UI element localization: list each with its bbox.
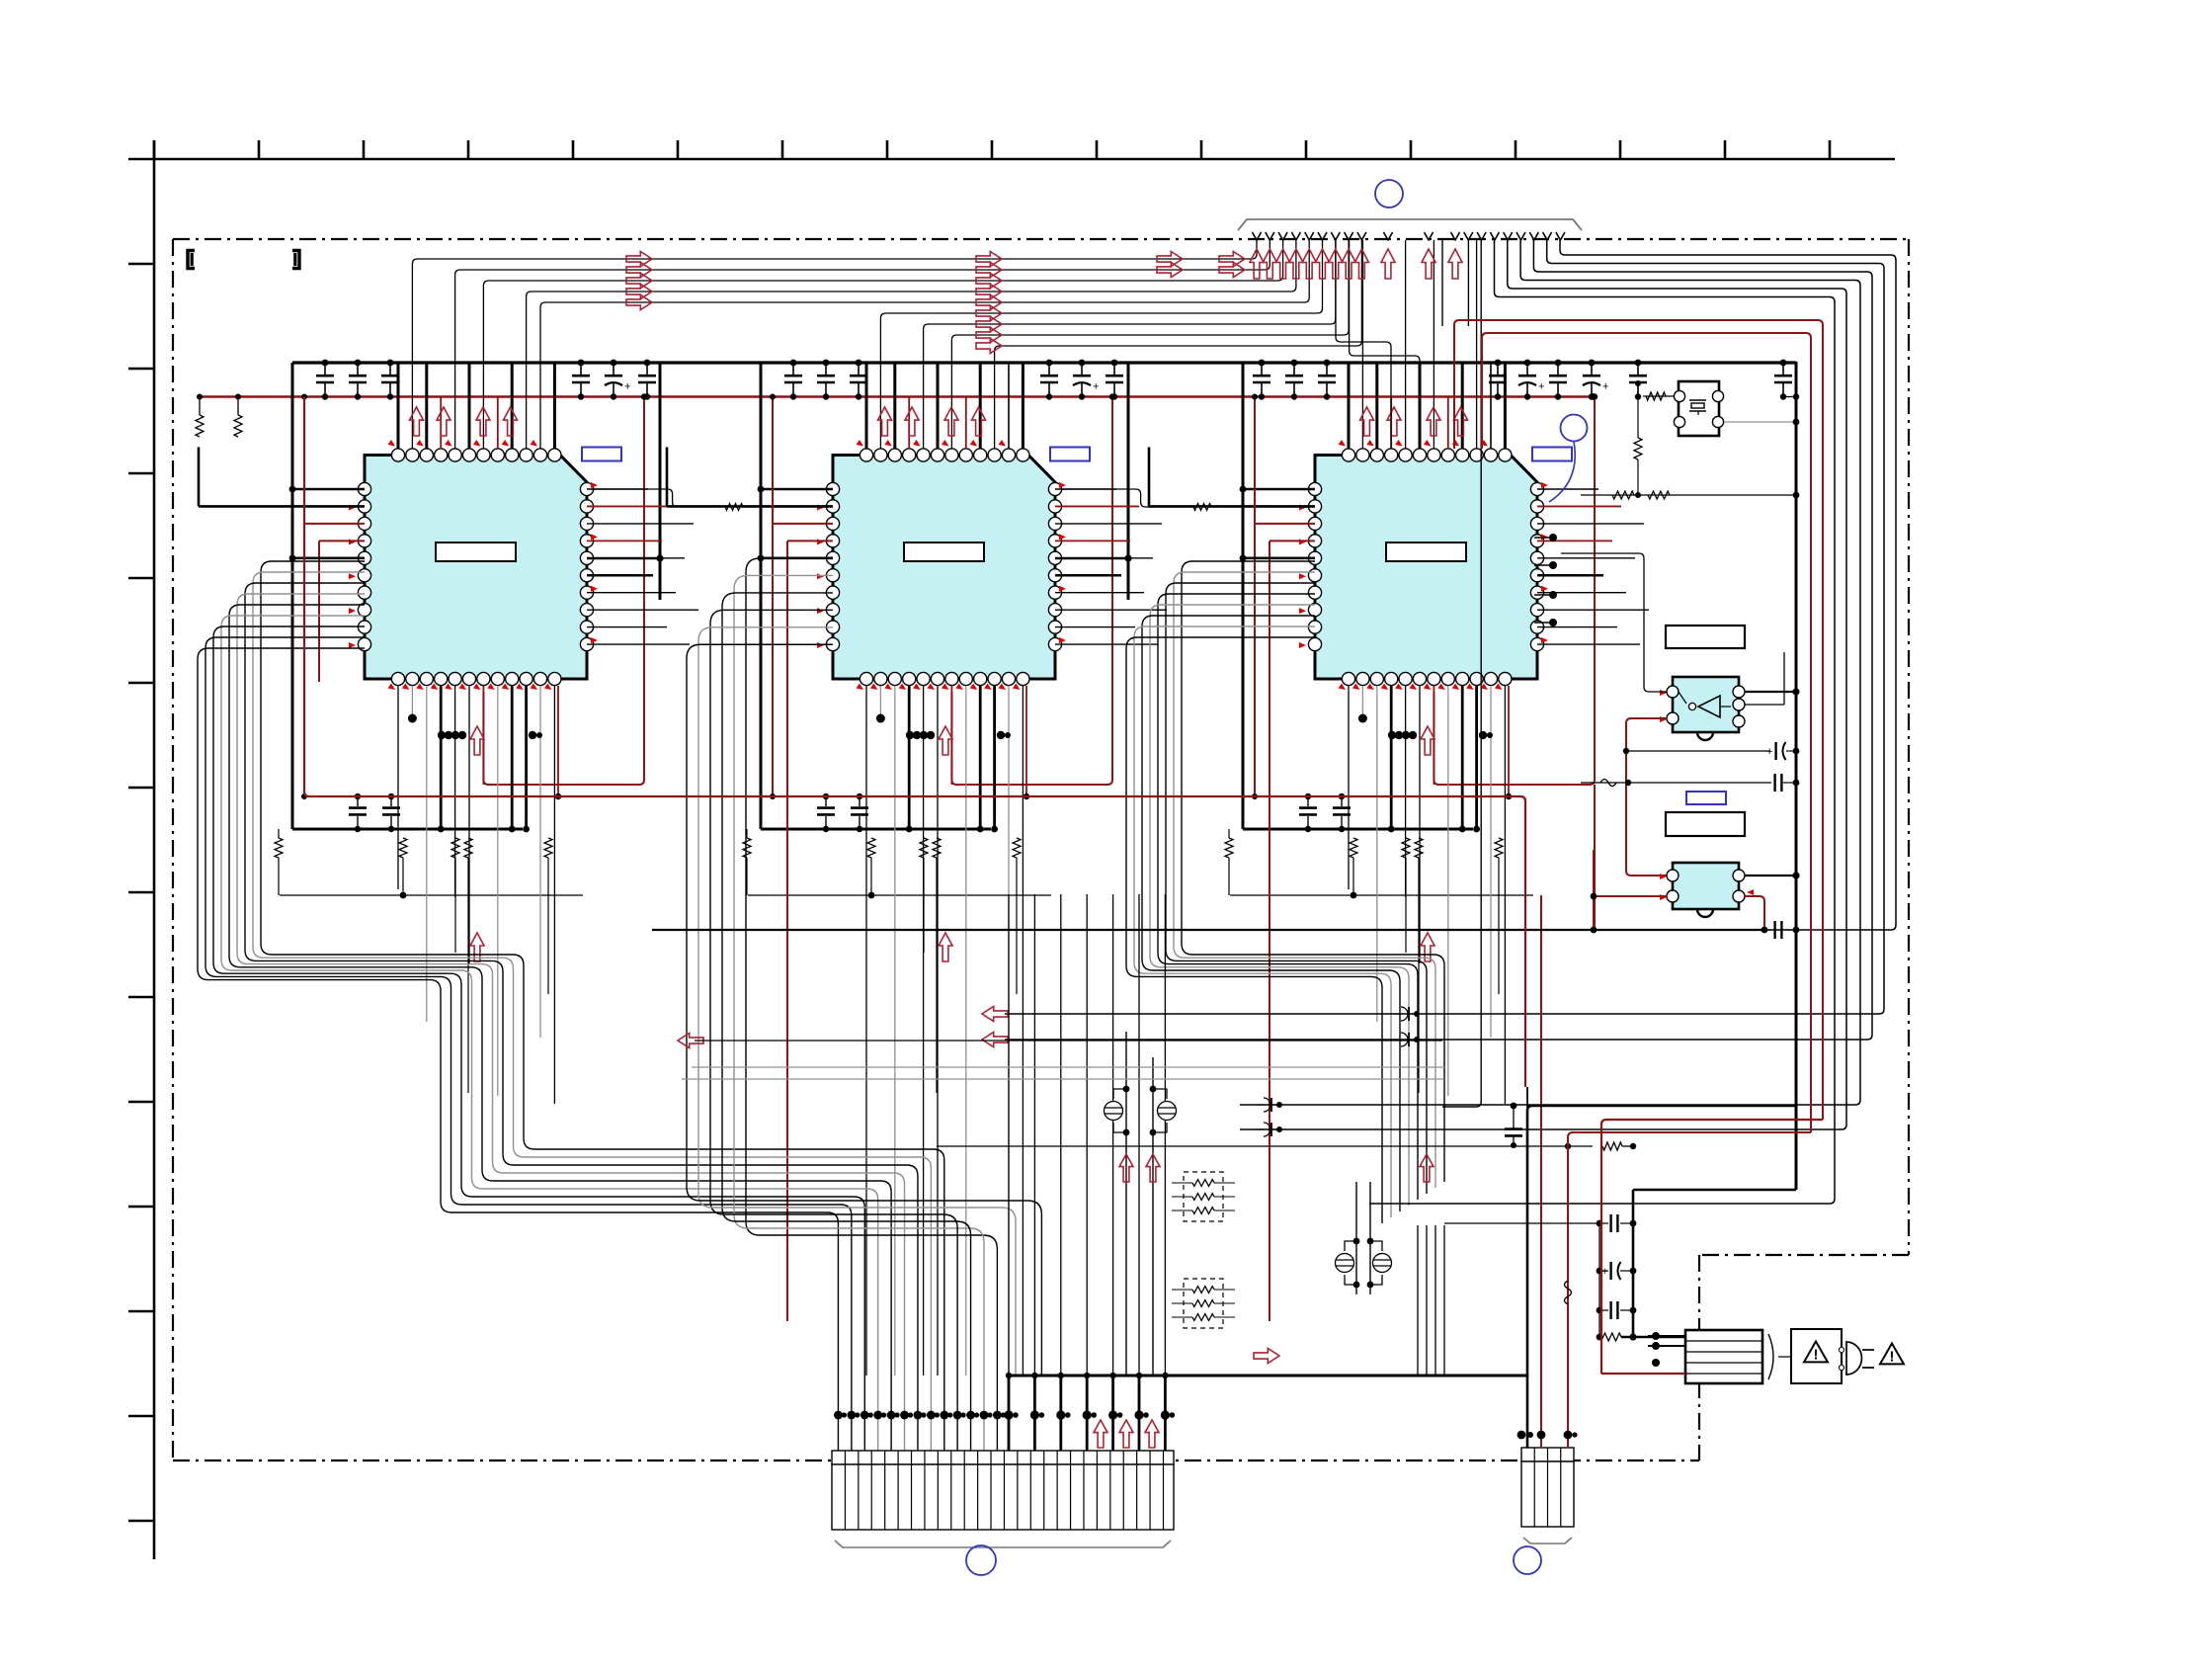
filter arrows xyxy=(1119,1154,1434,1182)
resistor networks (dashed) xyxy=(1172,1172,1235,1328)
cap right 2 xyxy=(1581,774,1799,792)
inter-IC links xyxy=(594,489,1315,510)
svg-text:+: + xyxy=(1093,381,1099,393)
inverter gate U4 xyxy=(1660,677,1745,740)
svg-text:+: + xyxy=(1766,746,1772,758)
IC top pin feeds and supply arrows xyxy=(398,240,1505,449)
crystal resonator X1 xyxy=(1635,380,1799,436)
right side nested bundle xyxy=(652,240,1896,1204)
pull resistors far left xyxy=(196,394,242,438)
power connector ref circle xyxy=(1514,1546,1541,1574)
U5 wiring xyxy=(1591,850,1800,933)
arrows near connector xyxy=(1094,1349,1279,1449)
electrolytic cap right xyxy=(1623,742,1800,760)
IC ground rails and bottom decoupling xyxy=(275,363,1598,1093)
test point dots xyxy=(1534,534,1557,626)
board boundary (dash-dot) xyxy=(173,239,1909,1460)
bus direction arrows (right) xyxy=(626,252,1245,354)
IC bottom pin wires xyxy=(398,686,1512,1376)
board-to-board connector CN (bottom) xyxy=(832,1451,1174,1547)
ceramic resonators xyxy=(1256,1007,1420,1136)
svg-text:+: + xyxy=(624,381,630,393)
IC U3 (QFP, shaded) xyxy=(1299,440,1572,692)
wire bundle from U1 to board connector xyxy=(198,561,952,1451)
svg-text:+: + xyxy=(1538,381,1544,393)
connector ref circle xyxy=(966,1545,996,1575)
part label box C xyxy=(1666,812,1745,836)
filter feed wires xyxy=(1126,1032,1370,1376)
power transformer T1 xyxy=(1601,1330,1791,1383)
V rail distribution (dark red) xyxy=(304,397,1525,1088)
top connector brace xyxy=(1238,219,1582,230)
cap right 3 xyxy=(1761,921,1800,939)
wire bundle from U2 to board connector xyxy=(687,558,1041,1451)
bias resistors xyxy=(1581,396,1799,499)
U4 wiring xyxy=(1561,553,1800,876)
power filter column xyxy=(1444,362,1823,1374)
border frame with ruler ticks xyxy=(128,140,1895,1559)
IC U2 (QFP, shaded) xyxy=(817,440,1090,692)
analog switch U5 xyxy=(1660,863,1754,917)
part label box A xyxy=(1666,626,1745,648)
AC mains block with warnings xyxy=(1791,1329,1904,1383)
power connector (bottom right) xyxy=(1521,1448,1574,1544)
signal lines to top connector xyxy=(1336,240,1420,449)
svg-text:!: ! xyxy=(1814,1348,1819,1364)
decoupling capacitors on bus xyxy=(316,360,1799,400)
power rail (dark red) xyxy=(198,393,1597,400)
top connector pin heads xyxy=(1253,232,1565,240)
top connector supply arrows xyxy=(1250,249,1462,279)
mid horizontal rails xyxy=(652,930,1796,1448)
top connector ref circle xyxy=(1375,180,1403,208)
board name brackets xyxy=(188,251,299,269)
svg-text:!: ! xyxy=(1890,1350,1895,1366)
direction arrows (left) xyxy=(678,1007,1442,1048)
svg-text:+: + xyxy=(1602,381,1608,393)
ceramic filters xyxy=(1105,1086,1392,1289)
connector power bus xyxy=(1004,894,1527,1451)
Vcc bus (top) xyxy=(292,361,1796,364)
IC U1 (QFP, shaded) xyxy=(349,440,621,692)
part label box B (blue) xyxy=(1686,792,1726,804)
note circle xyxy=(1549,415,1588,503)
IC side pin wires xyxy=(199,394,1649,1322)
wire bundle from U3 down xyxy=(1126,561,1444,1376)
power connector wires xyxy=(1517,895,1578,1448)
